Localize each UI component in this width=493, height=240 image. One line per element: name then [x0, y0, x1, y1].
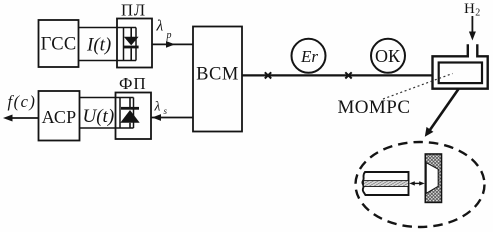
block АСР (processing)	[39, 91, 80, 141]
splice X1	[265, 72, 271, 78]
laser diode inner loop	[124, 28, 137, 61]
svg-text:ПЛ: ПЛ	[121, 1, 146, 20]
gap double arrow	[409, 181, 424, 185]
photodiode symbol	[120, 98, 139, 129]
label lambda_s	[154, 99, 168, 116]
wire bus I(t) bottom	[79, 60, 137, 62]
block ВСМ (fiber splitter)	[193, 27, 242, 132]
svg-text:I(t): I(t)	[86, 34, 111, 55]
block ГСС (signal generator)	[39, 20, 79, 67]
wire bus I(t) top	[79, 27, 137, 29]
wire lambda_p to BCM	[152, 41, 193, 48]
output arrow f(c)	[3, 115, 39, 122]
wire bus U(t) top	[80, 97, 134, 99]
wire lambda_s from BCM to ФП	[152, 114, 194, 121]
svg-text:ГСС: ГСС	[41, 35, 77, 55]
svg-text:ОК: ОК	[375, 46, 401, 66]
svg-text:λ: λ	[154, 99, 161, 114]
OK fiber coil	[371, 39, 405, 73]
svg-text:p: p	[166, 30, 172, 41]
Er-doped fiber coil	[292, 39, 326, 73]
label H2	[464, 1, 480, 19]
svg-text:ФП: ФП	[119, 74, 147, 93]
svg-text:H: H	[464, 1, 475, 17]
zoom arrow from sensor to ellipse	[425, 89, 459, 137]
svg-text:λ: λ	[156, 18, 164, 35]
svg-text:Er: Er	[300, 47, 318, 66]
svg-text:f(c): f(c)	[8, 92, 37, 111]
svg-text:2: 2	[475, 7, 480, 18]
label lambda_p	[156, 18, 172, 42]
reflector plate (hatched)	[425, 154, 441, 202]
photodiode inner loop	[120, 98, 134, 129]
sensor MOMRS outer body with gas inlet stub	[433, 44, 488, 88]
svg-text:U(t): U(t)	[83, 106, 115, 127]
H2 inlet arrow	[469, 16, 476, 41]
dotted pointer from label to sensor cell	[383, 74, 453, 100]
sensor inner cell	[439, 63, 482, 84]
fiber line from BCM to sensor	[242, 74, 433, 76]
fiber end (cleaved)	[362, 172, 408, 195]
block ФП (photodiode)	[116, 74, 152, 139]
block ПЛ (laser diode)	[117, 1, 152, 68]
svg-text:АСР: АСР	[42, 107, 77, 127]
svg-text:ВСМ: ВСМ	[196, 64, 239, 84]
svg-text:МОМРС: МОМРС	[338, 97, 411, 118]
laser diode symbol	[124, 28, 139, 60]
splice X2	[345, 72, 351, 78]
wire bus U(t) bottom	[80, 127, 134, 129]
svg-text:s: s	[164, 106, 168, 116]
zoom dashed ellipse	[356, 142, 485, 227]
